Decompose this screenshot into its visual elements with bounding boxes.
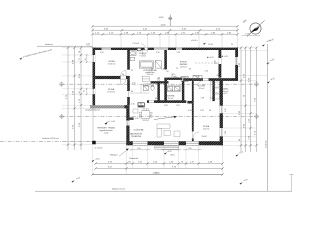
svg-text:+0.15: +0.15 (223, 93, 228, 95)
plot boundary line bottom left (0, 137, 92, 141)
small notes below terrace (95, 148, 103, 150)
bottom dimension line 1 (93, 164, 223, 175)
dashed roofline top right room (195, 62, 219, 64)
top dimension numbers (95, 17, 232, 35)
top dimension ticks (91, 25, 238, 35)
svg-text:7.51 m2: 7.51 m2 (139, 56, 146, 58)
svg-text:TERASZRA: TERASZRA (131, 135, 141, 138)
svg-text:telekhatár: telekhatár (265, 140, 268, 148)
entry steps (155, 146, 179, 149)
level annotation +4.50 top right (262, 40, 272, 47)
dim smudges y110 (188, 110, 211, 112)
room label KONYHA (167, 94, 175, 99)
bath bench rect (142, 76, 149, 81)
right extension lines (223, 48, 268, 146)
hall boundary thin line (209, 81, 211, 101)
svg-text:Főbejárat: Főbejárat (110, 154, 118, 157)
svg-text:8.2 m2: 8.2 m2 (168, 98, 174, 100)
svg-text:1.9: 1.9 (157, 80, 160, 82)
interior wall: vertical x218-221 top right (219, 50, 222, 78)
+0.30 bottom right of house (236, 151, 244, 156)
room label SZOBA 2 (107, 88, 115, 93)
top dimension chain line 1 (93, 26, 238, 34)
svg-text:1.50: 1.50 (100, 52, 104, 54)
window sill dims bottom (137, 148, 192, 150)
section line A-A lower (59, 114, 259, 119)
svg-text:14.45: 14.45 (160, 24, 166, 26)
level dots top right room (207, 56, 228, 65)
room label SZOBA right (202, 125, 210, 138)
leader arrows bottom (119, 148, 129, 156)
scale bar under north arrow (242, 33, 261, 35)
misc interior dims (131, 70, 208, 120)
svg-text:1.20: 1.20 (177, 52, 181, 54)
+0.00 annotation bottom left (72, 177, 81, 182)
hall partition thin lines (130, 84, 150, 93)
svg-text:+0.15: +0.15 (224, 56, 229, 58)
svg-text:sz. 15x05: sz. 15x05 (95, 148, 103, 150)
svg-text:90: 90 (84, 90, 86, 92)
interior wall: horizontal y78 right (167, 78, 182, 80)
bedroom top dims (201, 98, 214, 100)
interior wall: wc partition x158 (157, 83, 160, 103)
svg-text:2.60: 2.60 (225, 131, 227, 135)
right vertical below (290, 175, 294, 192)
+0.15 annotations above right of steps (164, 151, 175, 156)
door arcs left rooms (121, 50, 148, 85)
ELOTER label (198, 85, 206, 90)
bottom dimension numbers (108, 162, 213, 175)
bath fixtures: wc (130, 57, 135, 60)
svg-text:15x10: 15x10 (208, 44, 213, 46)
left extension lines (62, 48, 93, 145)
closet boxes right (215, 82, 220, 99)
svg-text:15.92 m2: 15.92 m2 (107, 92, 115, 94)
exterior wall: bottom of left wing (90, 105, 130, 108)
left dimension line a (68, 48, 81, 150)
svg-text:60: 60 (155, 98, 157, 100)
level annotation plusminus 0.00 above top wall (191, 40, 233, 46)
svg-text:1.40: 1.40 (196, 76, 200, 78)
svg-text:1:100: 1:100 (245, 33, 250, 35)
svg-text:2.10: 2.10 (205, 71, 209, 73)
svg-text:1.20: 1.20 (188, 148, 192, 150)
small level mark top left of building (86, 43, 93, 47)
wall stub kitchen-bedroom (187, 101, 193, 104)
svg-text:+0.00: +0.00 (95, 158, 100, 160)
svg-text:90: 90 (167, 71, 169, 73)
label MOSO (171, 74, 177, 78)
svg-text:90: 90 (85, 59, 87, 61)
svg-text:90: 90 (158, 78, 160, 80)
interior wall: kitchen right x182 (182, 81, 184, 103)
bath fixtures: shower (155, 61, 161, 69)
label block right middle (223, 87, 229, 95)
svg-text:14.45: 14.45 (158, 17, 164, 19)
room label FURDO (139, 52, 146, 57)
svg-text:32.3 m2: 32.3 m2 (180, 66, 187, 68)
right level annotations (267, 39, 276, 84)
svg-text:90: 90 (151, 68, 153, 70)
svg-text:8,90: 8,90 (145, 85, 149, 87)
interior wall: bedroom divider x192 (192, 81, 194, 141)
svg-text:21.4 m2: 21.4 m2 (203, 129, 210, 131)
svg-text:90: 90 (217, 75, 219, 77)
svg-text:1.20: 1.20 (176, 105, 180, 107)
room label FURDO block (144, 69, 158, 76)
shoe cabinet (133, 109, 138, 113)
arrow in living room (154, 116, 177, 120)
wall: right wing bottom (y78) (183, 78, 238, 81)
wc label small (157, 78, 161, 82)
hall tiny dims (131, 82, 148, 93)
svg-text:75: 75 (176, 68, 178, 70)
svg-text:1.98: 1.98 (164, 105, 168, 107)
svg-text:Térburkolat: Térburkolat (129, 157, 139, 160)
svg-text:±0.00 =: ±0.00 = (191, 40, 199, 42)
svg-text:∅ 15x05: ∅ 15x05 (132, 42, 139, 45)
room label KAMRA (130, 129, 144, 138)
terrace outline (93, 108, 126, 143)
interior wall: hall right vertical x128 lower (127, 79, 130, 105)
bath fixtures: sink (130, 51, 136, 56)
bottom extension lines (93, 146, 223, 175)
top benchmark symbol (168, 15, 172, 27)
svg-text:+0.15: +0.15 (167, 151, 172, 153)
exterior wall: bottom main (126, 141, 223, 145)
interior wall: bathroom right vertical x165 (164, 50, 167, 102)
svg-text:90: 90 (189, 68, 191, 70)
bottom level dimension line (93, 172, 223, 174)
sofa set (157, 124, 180, 137)
dark fixture at hall (129, 117, 134, 120)
svg-text:+0.00: +0.00 (86, 43, 91, 45)
window rotated dims right wall (225, 109, 227, 135)
right dimension numbers (rotated) (239, 62, 257, 141)
interior wall: kitchen bottom y102 (147, 100, 186, 103)
svg-text:1.10: 1.10 (174, 77, 178, 79)
svg-text:90: 90 (122, 74, 124, 76)
svg-text:8.35 m2: 8.35 m2 (147, 74, 154, 76)
right dimension ticks (240, 46, 258, 146)
svg-text:ELŐSZOBA: ELŐSZOBA (134, 129, 144, 132)
svg-text:90: 90 (131, 91, 133, 93)
svg-text:4.76: 4.76 (188, 110, 192, 112)
rotated annotation: existing building note (20, 48, 53, 60)
interior wall: closet wall x213 (212, 81, 214, 102)
right dimension lines (241, 48, 257, 152)
annotation +0.45 terrace (105, 121, 116, 125)
svg-text:szegélykő (lépcső): szegélykő (lépcső) (85, 109, 100, 111)
dim smudges above y78 walls (151, 68, 191, 70)
left dimension ticks (67, 46, 82, 145)
svg-text:2.10: 2.10 (225, 109, 227, 113)
terrace label (97, 127, 116, 135)
plot boundary line right (265, 44, 268, 191)
exterior wall: top (93, 48, 239, 50)
vent box on top wall (137, 48, 141, 51)
bottom labels (110, 154, 139, 160)
dining table set (139, 109, 152, 121)
svg-text:+0.00: +0.00 (104, 132, 109, 134)
exterior wall: step vertical (126, 108, 129, 145)
bottom dimension ticks (91, 162, 223, 175)
svg-text:1.78: 1.78 (201, 98, 205, 100)
kitchen counter top (167, 86, 181, 91)
telekhatar line top left (37, 43, 93, 46)
wc fixtures (143, 85, 154, 91)
svg-text:4.9 m2: 4.9 m2 (199, 88, 205, 90)
door arc right wing (198, 81, 214, 87)
section line A-A upper (59, 82, 259, 87)
top extension lines (93, 26, 238, 47)
bath fixtures: tub (139, 61, 154, 68)
svg-text:+0.45: +0.45 (111, 121, 116, 123)
interior wall: horizontal y82 mid (151, 81, 169, 83)
left dimension numbers (rotated) (66, 50, 81, 129)
window dim segments left wall (86, 54, 88, 95)
svg-text:2.10: 2.10 (156, 52, 160, 54)
hall fixtures: box (193, 75, 202, 79)
svg-text:1.78: 1.78 (200, 110, 204, 112)
svg-text:Meglévő térszint: Meglévő térszint (112, 188, 126, 191)
window dim segments below bottom wall (130, 149, 202, 151)
svg-text:1.40: 1.40 (161, 68, 165, 70)
ground line (35, 188, 292, 192)
bedroom door arc (193, 132, 200, 139)
svg-text:Térkő: Térkő (170, 154, 175, 156)
svg-text:95: 95 (231, 44, 233, 46)
room label ETKEZO (180, 61, 188, 69)
exterior wall: right lower (220, 80, 223, 145)
+0.00 annotation bottom left of steps (92, 158, 100, 162)
svg-text:telekhatár: telekhatár (45, 43, 53, 46)
svg-text:75: 75 (131, 70, 133, 72)
north arrow (242, 19, 264, 36)
exterior wall: right upper (235, 48, 238, 81)
exterior wall: left (93, 48, 96, 109)
room label SZOBA 1 (108, 60, 116, 65)
svg-text:13x18: 13x18 (202, 136, 207, 138)
chimney shaft (138, 103, 144, 107)
svg-text:1.50: 1.50 (137, 148, 141, 150)
interior wall: horizontal between left rooms (95, 76, 130, 79)
hall fixtures: stair hatch (181, 77, 188, 82)
door size labels scattered (122, 71, 219, 78)
window dims under top wall (100, 52, 180, 54)
svg-text:telekhatár 632/4 hrsz.: telekhatár 632/4 hrsz. (42, 137, 60, 140)
svg-text:1.35: 1.35 (131, 104, 135, 106)
kitchen wall dim smudges (131, 104, 180, 108)
svg-text:2.10: 2.10 (214, 63, 218, 65)
+0.00 annotation bottom right (240, 179, 249, 184)
svg-text:17.05 m2: 17.05 m2 (108, 63, 116, 65)
terrace post (92, 141, 96, 145)
svg-text:2.10: 2.10 (132, 82, 136, 84)
svg-text:1.90: 1.90 (135, 118, 139, 120)
svg-text:+0.15: +0.15 (209, 57, 214, 59)
svg-text:90: 90 (140, 104, 142, 106)
svg-text:14.05: 14.05 (152, 172, 158, 174)
interior wall: vertical x128 (127, 50, 130, 70)
svg-text:90: 90 (209, 110, 211, 112)
